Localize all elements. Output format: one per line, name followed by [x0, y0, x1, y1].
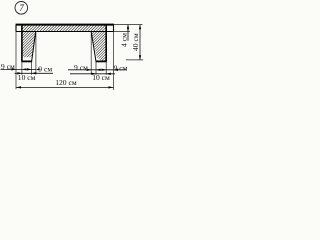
- slab bottom edge: [16, 31, 114, 33]
- extension line from left leg top inner corner: [35, 32, 37, 74]
- extension line at leg bottom level for 40cm dim: [126, 59, 143, 61]
- arrow at 96 pointing right: [91, 73, 96, 75]
- arrow at top of 4cm pointing up: [127, 25, 129, 29]
- extension line from right leg top inner corner: [90, 32, 92, 74]
- arrow at 91.2 pointing right: [87, 69, 92, 71]
- right leg bottom edge: [96, 60, 107, 62]
- dimension line row A left (9cm/9cm): [1, 68, 37, 70]
- arrow at 113.5 pointing right: [109, 86, 114, 88]
- arrow at top of 40cm pointing up: [139, 25, 141, 30]
- extension line from slab right end down: [113, 32, 115, 91]
- svg-text:9 см: 9 см: [74, 63, 88, 72]
- dimension line row A right (9cm/9cm): [68, 69, 127, 71]
- svg-text:9 см: 9 см: [1, 62, 15, 71]
- extension line from slab bottom right, to the right: [114, 31, 131, 33]
- slab left end: [15, 25, 17, 32]
- arrow at 31.6 pointing left: [32, 72, 37, 74]
- arrow at 16 pointing right: [11, 68, 16, 70]
- svg-text:7: 7: [19, 3, 24, 13]
- arrow at 16 pointing left: [16, 86, 21, 88]
- right leg hatch fill: [91, 32, 106, 62]
- slab hatch fill: [22, 25, 106, 32]
- slab right end: [113, 25, 115, 32]
- svg-text:9 см: 9 см: [38, 64, 52, 73]
- dimension line 120cm: [16, 86, 114, 88]
- extension line from slab left end: [15, 32, 17, 90]
- left leg hatch fill: [22, 32, 36, 58]
- svg-text:9 см: 9 см: [114, 63, 128, 72]
- arrow at 22 pointing left: [22, 68, 27, 70]
- svg-text:120 см: 120 см: [55, 78, 77, 87]
- svg-text:4 см: 4 см: [119, 33, 128, 47]
- dimension line 4cm vertical: [127, 25, 129, 41]
- extension line from slab top right, to the right: [114, 24, 143, 26]
- extension line from right leg bottom outer corner: [105, 61, 107, 74]
- arrow at 96 pointing left: [96, 69, 101, 71]
- arrow at 31.6 pointing right: [27, 68, 32, 70]
- svg-text:40 см: 40 см: [131, 33, 140, 51]
- arrow at 22 pointing right: [17, 72, 22, 74]
- svg-text:10 см: 10 см: [92, 73, 110, 82]
- arrow at bottom of 40cm pointing down: [139, 55, 141, 60]
- extension line from left leg bottom outer corner: [21, 61, 23, 74]
- arrow at 106.2 pointing left: [106, 73, 111, 75]
- right leg outer edge: [105, 25, 107, 62]
- svg-text:10 см: 10 см: [18, 73, 36, 82]
- extension line from left leg bottom inner corner: [31, 61, 33, 74]
- left leg outer edge: [21, 25, 23, 62]
- arrow at 113.5 pointing left: [114, 69, 119, 71]
- dimension line 40cm vertical: [139, 25, 141, 60]
- left leg bottom edge: [21, 60, 32, 62]
- right leg inner edge: [91, 32, 96, 62]
- arrow at 106.2 pointing right: [102, 69, 107, 71]
- dimension line row B left (10cm): [15, 72, 54, 74]
- dimension line row B right (10cm): [70, 73, 115, 75]
- circled item number 7: [15, 2, 28, 15]
- extension line from right leg bottom inner corner: [95, 61, 97, 74]
- slab top edge: [16, 24, 114, 26]
- arrow at bottom of 4cm pointing down: [127, 28, 129, 32]
- arrow at 36 pointing left: [36, 68, 40, 70]
- left leg inner edge: [32, 32, 36, 62]
